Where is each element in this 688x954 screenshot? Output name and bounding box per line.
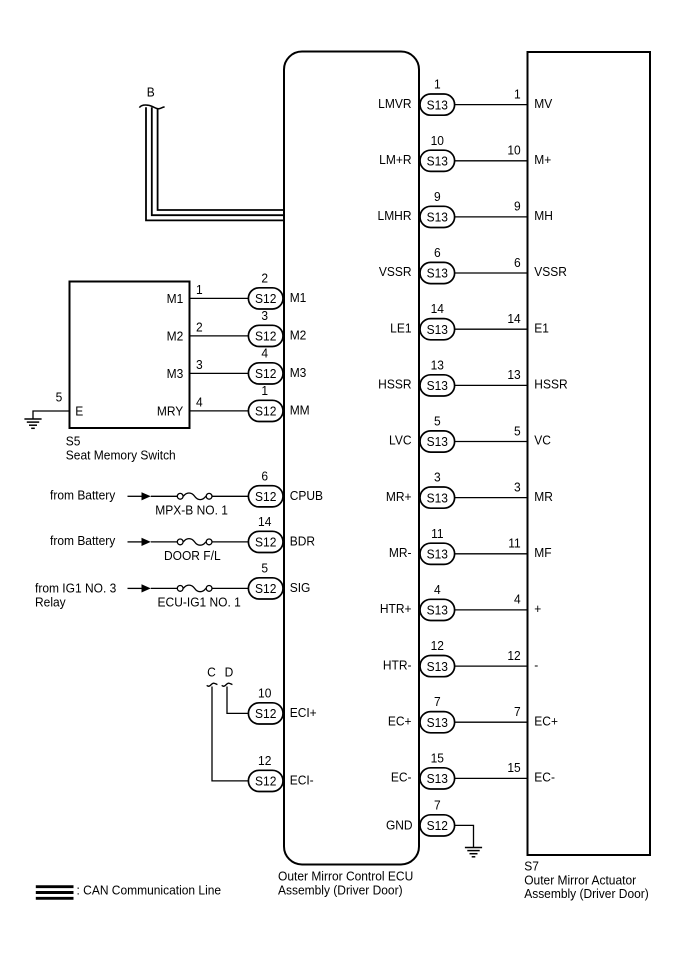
connector S13 pin 3 [420, 487, 455, 508]
svg-text:S5: S5 [66, 434, 81, 449]
connector S12 pin 5 [248, 578, 283, 599]
wire: EC+ to actuator [455, 721, 527, 723]
pin number 4 (S12) [261, 346, 268, 361]
label MR+ (ECU pin) [386, 489, 412, 504]
label BDR (ECU pin) [290, 534, 315, 549]
pin number 10 (S12 ECI+) [258, 686, 271, 701]
svg-text:S13: S13 [427, 154, 448, 169]
wire: S5 E to ground [33, 411, 70, 419]
label - (S7 pin) [534, 658, 538, 673]
svg-text:from Battery: from Battery [50, 488, 116, 503]
pin number 4 (S13) [434, 582, 441, 597]
svg-text:4: 4 [261, 346, 268, 361]
svg-text:S12: S12 [255, 404, 276, 419]
svg-text:9: 9 [434, 189, 441, 204]
svg-text:Relay: Relay [35, 595, 66, 610]
label CPUB (ECU pin) [290, 488, 323, 503]
svg-text:HSSR: HSSR [378, 377, 411, 392]
wire: LVC to actuator [455, 441, 527, 443]
svg-text:1: 1 [261, 383, 268, 398]
svg-text:7: 7 [514, 704, 521, 719]
label S5 Seat Memory Switch [66, 434, 176, 463]
pin number 15 (S7 side) [507, 761, 520, 776]
svg-text:11: 11 [508, 536, 520, 551]
pin number 11 (S7 side) [508, 536, 520, 551]
svg-text:7: 7 [434, 798, 441, 813]
svg-text:S13: S13 [427, 491, 448, 506]
connector S12 pin 4 [248, 363, 283, 384]
pin number 3 (S7 side) [514, 480, 521, 495]
svg-text:B: B [147, 85, 155, 100]
svg-text:4: 4 [514, 592, 521, 607]
svg-text:GND: GND [386, 818, 413, 833]
svg-text:M3: M3 [167, 367, 184, 382]
label: Outer Mirror Control ECU Assembly (Driver Door) [278, 869, 413, 898]
connector S13 pin 14 [420, 319, 455, 340]
svg-text:MM: MM [290, 403, 310, 418]
net: from Battery (BDR) [50, 534, 116, 549]
wire: GND to ground [455, 825, 474, 847]
svg-text:LMHR: LMHR [378, 209, 412, 224]
svg-text:S13: S13 [427, 659, 448, 674]
connector S12 pin 3 [248, 325, 283, 346]
svg-text:1: 1 [434, 77, 441, 92]
svg-text:4: 4 [434, 582, 441, 597]
label VSSR (S7 pin) [534, 265, 567, 280]
svg-text:12: 12 [258, 753, 271, 768]
pin number 13 (S13) [431, 358, 444, 373]
wire: HTR- to actuator [455, 665, 527, 667]
pin number 1 (S12) [261, 383, 268, 398]
svg-text:S13: S13 [427, 772, 448, 787]
wire: SIG feed with arrow [128, 584, 178, 592]
svg-text:MRY: MRY [157, 404, 184, 419]
connector S13 pin 1 [420, 94, 455, 115]
svg-text:ECI+: ECI+ [290, 705, 317, 720]
connector S13 pin 11 [420, 543, 455, 564]
pin number 10 (S7 side) [507, 143, 520, 158]
svg-text:S12: S12 [427, 819, 448, 834]
wire: break mark at D [222, 683, 233, 686]
svg-text:from IG1 NO. 3: from IG1 NO. 3 [35, 581, 116, 596]
label S7 [524, 859, 539, 874]
label M1 (ECU pin) [290, 290, 307, 305]
wire: fuse to S12 [212, 587, 248, 589]
pin number 4 (S7 side) [514, 592, 521, 607]
label EC- (ECU pin) [391, 770, 412, 785]
connector S12 pin 6 [248, 486, 283, 507]
wire: fuse to S12 [212, 495, 248, 497]
connector S13 pin 9 [420, 206, 455, 227]
svg-text:MPX-B NO. 1: MPX-B NO. 1 [155, 503, 228, 518]
pin number 1 (S7 side) [514, 87, 521, 102]
svg-text:3: 3 [196, 358, 203, 373]
svg-text:ECU-IG1 NO. 1: ECU-IG1 NO. 1 [158, 595, 241, 610]
wire: HSSR to actuator [455, 384, 527, 386]
label M3 (ECU pin) [290, 365, 307, 380]
svg-text:EC-: EC- [391, 770, 412, 785]
label MF (S7 pin) [534, 545, 552, 560]
svg-text:S13: S13 [427, 266, 448, 281]
connector S13 pin 12 [420, 656, 455, 677]
svg-text:LE1: LE1 [390, 321, 411, 336]
svg-text:S12: S12 [255, 367, 276, 382]
connector S12 pin 14 [248, 531, 283, 552]
svg-text:: CAN Communication Line: : CAN Communication Line [77, 883, 222, 898]
svg-text:14: 14 [258, 514, 271, 529]
svg-text:S13: S13 [427, 435, 448, 450]
wire: CAN communication triple line from B to ECU left edge [146, 107, 284, 220]
wire: S5 MM row to connector S12 [190, 410, 249, 412]
svg-text:S12: S12 [255, 329, 276, 344]
label HSSR (ECU pin) [378, 377, 411, 392]
pin number 14 (S12) [258, 514, 271, 529]
svg-text:5: 5 [434, 414, 441, 429]
svg-text:13: 13 [507, 368, 520, 383]
svg-text:Outer Mirror Actuator: Outer Mirror Actuator [524, 873, 637, 888]
legend: CAN communication line symbol [36, 887, 74, 899]
svg-text:MF: MF [534, 545, 552, 560]
pin M2 (S5) [167, 329, 184, 344]
svg-text:HTR+: HTR+ [380, 602, 412, 617]
connector S12 pin 7 [420, 815, 455, 836]
net: from IG1 NO. 3 Relay [35, 581, 116, 610]
label EC+ (ECU pin) [388, 714, 412, 729]
svg-text:MV: MV [534, 96, 553, 111]
svg-text:MH: MH [534, 209, 553, 224]
svg-text:EC+: EC+ [534, 714, 558, 729]
svg-text:M2: M2 [290, 328, 307, 343]
pin number 6 (S12) [261, 469, 268, 484]
label LMHR (ECU pin) [378, 209, 412, 224]
wire: S5 M2 row to connector S12 [190, 335, 249, 337]
svg-text:-: - [534, 658, 538, 673]
connector S13 pin 13 [420, 375, 455, 396]
pin number 12 (S12 ECI-) [258, 753, 271, 768]
svg-text:4: 4 [196, 395, 203, 410]
pin number 2 (S5 side) [196, 320, 203, 335]
pin number 13 (S7 side) [507, 368, 520, 383]
svg-text:LMVR: LMVR [378, 96, 411, 111]
pin number 3 (S12) [261, 308, 268, 323]
svg-text:14: 14 [431, 302, 444, 317]
connector S12 pin 10 [248, 703, 283, 724]
pin number 1 (S13) [434, 77, 441, 92]
svg-text:S12: S12 [255, 292, 276, 307]
connector S12 pin 1 [248, 400, 283, 421]
label LVC (ECU pin) [389, 433, 411, 448]
connector S13 pin 6 [420, 262, 455, 283]
svg-text:1: 1 [196, 283, 203, 298]
pin number 2 (S12) [261, 271, 268, 286]
svg-text:15: 15 [431, 751, 444, 766]
wire: EC- to actuator [455, 777, 527, 779]
label HSSR (S7 pin) [534, 377, 567, 392]
svg-text:6: 6 [514, 255, 521, 270]
svg-text:9: 9 [514, 199, 521, 214]
label ECI+ (ECU pin) [290, 705, 317, 720]
svg-text:MR+: MR+ [386, 489, 412, 504]
label MR- (ECU pin) [389, 545, 412, 560]
wire: S5 M3 row to connector S12 [190, 372, 249, 374]
label: CAN Communication Line [77, 883, 222, 898]
svg-text:M2: M2 [167, 329, 184, 344]
wire: LM+R to actuator [455, 160, 527, 162]
switch S5: Seat Memory Switch box [70, 282, 190, 429]
svg-text:ECI-: ECI- [290, 773, 314, 788]
svg-text:2: 2 [261, 271, 268, 286]
ground (GND) [465, 848, 482, 857]
svg-text:E1: E1 [534, 321, 549, 336]
connector S13 pin 15 [420, 768, 455, 789]
wire: LMVR to actuator [455, 104, 527, 106]
svg-text:S13: S13 [427, 322, 448, 337]
pin M1 (S5) [167, 292, 184, 307]
svg-text:EC-: EC- [534, 770, 555, 785]
svg-text:MR-: MR- [389, 545, 412, 560]
label EC+ (S7 pin) [534, 714, 558, 729]
svg-text:M+: M+ [534, 152, 551, 167]
label ECU-IG1 NO. 1 [158, 595, 241, 610]
label MH (S7 pin) [534, 209, 553, 224]
pin number 6 (S13) [434, 245, 441, 260]
svg-text:S13: S13 [427, 379, 448, 394]
pin number 9 (S7 side) [514, 199, 521, 214]
svg-text:10: 10 [258, 686, 271, 701]
svg-text:5: 5 [56, 390, 63, 405]
svg-text:Outer Mirror Control ECU: Outer Mirror Control ECU [278, 869, 413, 884]
svg-text:MR: MR [534, 489, 553, 504]
connector S12 pin 2 [248, 288, 283, 309]
label M+ (S7 pin) [534, 152, 551, 167]
svg-text:13: 13 [431, 358, 444, 373]
svg-text:+: + [534, 602, 541, 617]
label LMVR (ECU pin) [378, 96, 411, 111]
label GND (ECU pin) [386, 818, 413, 833]
svg-text:3: 3 [514, 480, 521, 495]
connector S13 pin 7 [420, 712, 455, 733]
pin number 5 (S5 pin E) [56, 390, 63, 405]
label LM+R (ECU pin) [379, 152, 411, 167]
svg-text:S13: S13 [427, 547, 448, 562]
connector S13 pin 10 [420, 150, 455, 171]
pin number 7 (S7 side) [514, 704, 521, 719]
svg-text:E: E [75, 404, 83, 419]
svg-text:C: C [207, 665, 216, 680]
svg-text:S12: S12 [255, 535, 276, 550]
label MM (ECU pin) [290, 403, 310, 418]
fuse DOOR F/L [177, 539, 212, 546]
svg-text:M3: M3 [290, 365, 307, 380]
pin number 14 (S7 side) [507, 311, 520, 326]
svg-text:M1: M1 [167, 292, 184, 307]
svg-text:15: 15 [507, 761, 520, 776]
pin number 5 (S12) [261, 561, 268, 576]
pin number 6 (S7 side) [514, 255, 521, 270]
svg-text:2: 2 [196, 320, 203, 335]
pin number 5 (S7 side) [514, 424, 521, 439]
connector S13 pin 4 [420, 599, 455, 620]
actuator S7: Outer Mirror Actuator Assembly (Driver Door) box [528, 52, 651, 855]
label ECI- (ECU pin) [290, 773, 314, 788]
svg-text:LM+R: LM+R [379, 152, 411, 167]
pin number 1 (S5 side) [196, 283, 203, 298]
wire: HTR+ to actuator [455, 609, 527, 611]
svg-text:S13: S13 [427, 715, 448, 730]
svg-text:3: 3 [434, 470, 441, 485]
svg-text:VSSR: VSSR [534, 265, 567, 280]
svg-text:EC+: EC+ [388, 714, 412, 729]
pin number 12 (S7 side) [507, 648, 520, 663]
wire: fuse to S12 [212, 541, 248, 543]
svg-text:6: 6 [434, 245, 441, 260]
svg-text:10: 10 [431, 133, 444, 148]
svg-text:BDR: BDR [290, 534, 315, 549]
svg-text:S7: S7 [524, 859, 539, 874]
svg-text:Assembly (Driver Door): Assembly (Driver Door) [278, 883, 403, 898]
ground (S5 E) [24, 419, 41, 428]
wire: LE1 to actuator [455, 328, 527, 330]
pin number 10 (S13) [431, 133, 444, 148]
wire: MR- to actuator [455, 553, 527, 555]
pin M3 (S5) [167, 367, 184, 382]
svg-text:D: D [225, 665, 234, 680]
wire: CAN bus break mark at B [139, 105, 164, 109]
label + (S7 pin) [534, 602, 541, 617]
svg-text:SIG: SIG [290, 580, 311, 595]
svg-text:DOOR F/L: DOOR F/L [164, 548, 221, 563]
svg-text:HTR-: HTR- [383, 658, 412, 673]
svg-text:12: 12 [507, 648, 520, 663]
label VSSR (ECU pin) [379, 265, 412, 280]
svg-text:10: 10 [507, 143, 520, 158]
svg-text:S13: S13 [427, 210, 448, 225]
svg-text:CPUB: CPUB [290, 488, 323, 503]
pin MRY (S5) [157, 404, 184, 419]
svg-text:from Battery: from Battery [50, 534, 116, 549]
net: from Battery (CPUB) [50, 488, 116, 503]
label SIG (ECU pin) [290, 580, 311, 595]
svg-text:M1: M1 [290, 290, 307, 305]
label VC (S7 pin) [534, 433, 551, 448]
label DOOR F/L [164, 548, 221, 563]
connector S12 pin 12 [248, 770, 283, 791]
label MR (S7 pin) [534, 489, 553, 504]
node D [225, 665, 234, 680]
connector S13 pin 5 [420, 431, 455, 452]
svg-text:HSSR: HSSR [534, 377, 567, 392]
wire: break mark at C [207, 683, 218, 686]
svg-text:VSSR: VSSR [379, 265, 412, 280]
svg-text:3: 3 [261, 308, 268, 323]
pin number 3 (S13) [434, 470, 441, 485]
wire: MR+ to actuator [455, 497, 527, 499]
svg-text:11: 11 [431, 526, 443, 541]
pin number 7 (S12 GND) [434, 798, 441, 813]
svg-text:6: 6 [261, 469, 268, 484]
svg-text:12: 12 [431, 639, 444, 654]
pin number 9 (S13) [434, 189, 441, 204]
ECU U1: Outer Mirror Control ECU Assembly (Driver Door) box [284, 52, 419, 865]
svg-text:LVC: LVC [389, 433, 411, 448]
label MV (S7 pin) [534, 96, 553, 111]
svg-text:S13: S13 [427, 98, 448, 113]
svg-text:7: 7 [434, 695, 441, 710]
wire: D to ECI+ connector [227, 687, 248, 714]
wire: CPUB feed with arrow [128, 492, 178, 500]
fuse ECU-IG1 NO. 1 [177, 585, 212, 592]
pin number 3 (S5 side) [196, 358, 203, 373]
svg-text:14: 14 [507, 311, 520, 326]
pin number 15 (S13) [431, 751, 444, 766]
wire: BDR feed with arrow [128, 538, 178, 546]
svg-text:5: 5 [514, 424, 521, 439]
label HTR- (ECU pin) [383, 658, 412, 673]
label E1 (S7 pin) [534, 321, 549, 336]
label MPX-B NO. 1 [155, 503, 228, 518]
wire: S5 M1 row to connector S12 [190, 297, 249, 299]
pin number 5 (S13) [434, 414, 441, 429]
pin number 4 (S5 side) [196, 395, 203, 410]
label HTR+ (ECU pin) [380, 602, 412, 617]
wire: C to ECI- connector [212, 687, 248, 781]
svg-text:S13: S13 [427, 603, 448, 618]
node C [207, 665, 216, 680]
svg-text:S12: S12 [255, 774, 276, 789]
pin number 11 (S13) [431, 526, 443, 541]
label EC- (S7 pin) [534, 770, 555, 785]
label LE1 (ECU pin) [390, 321, 411, 336]
label: Outer Mirror Actuator Assembly (Driver Door) [524, 873, 649, 902]
svg-text:S12: S12 [255, 489, 276, 504]
svg-text:1: 1 [514, 87, 521, 102]
svg-text:5: 5 [261, 561, 268, 576]
fuse MPX-B NO. 1 [177, 493, 212, 500]
svg-text:Seat Memory Switch: Seat Memory Switch [66, 448, 176, 463]
pin number 7 (S13) [434, 695, 441, 710]
svg-text:VC: VC [534, 433, 551, 448]
label M2 (ECU pin) [290, 328, 307, 343]
wire: LMHR to actuator [455, 216, 527, 218]
pin number 14 (S13) [431, 302, 444, 317]
svg-text:S12: S12 [255, 582, 276, 597]
pin E (S5) [75, 404, 83, 419]
svg-text:S12: S12 [255, 707, 276, 722]
pin number 12 (S13) [431, 639, 444, 654]
svg-text:Assembly (Driver Door): Assembly (Driver Door) [524, 887, 649, 902]
node B [147, 85, 155, 100]
wire: VSSR to actuator [455, 272, 527, 274]
